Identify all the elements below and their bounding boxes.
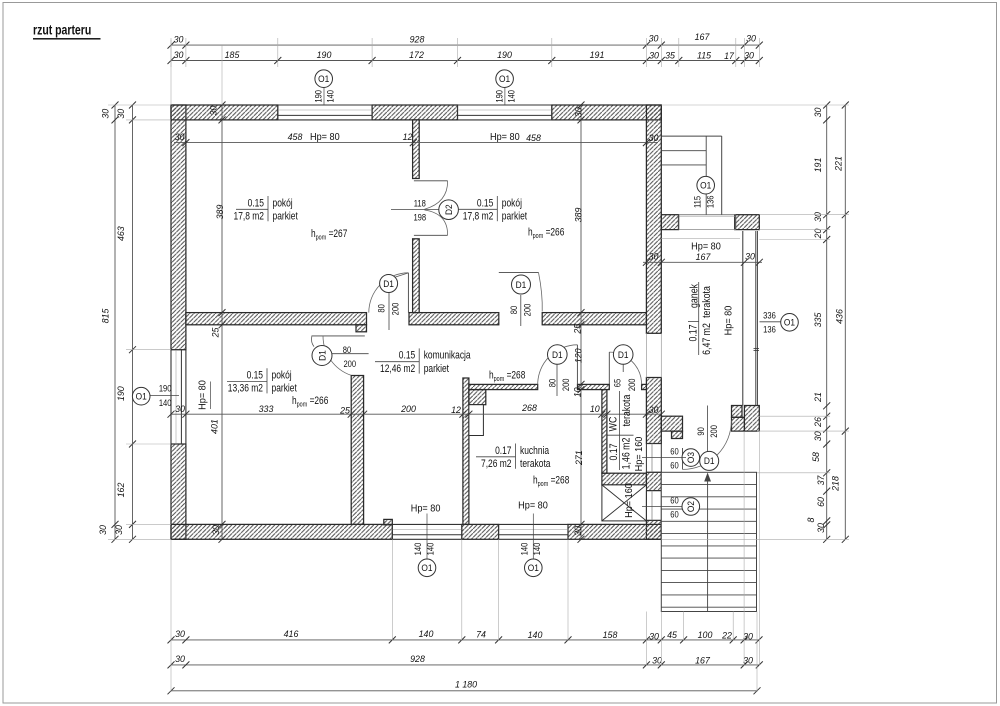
svg-text:terakota: terakota (520, 458, 551, 470)
svg-text:120: 120 (573, 348, 583, 364)
svg-text:7,26 m2: 7,26 m2 (481, 458, 511, 470)
svg-text:terakota: terakota (621, 394, 633, 426)
svg-text:271: 271 (574, 450, 584, 466)
svg-text:74: 74 (476, 629, 486, 639)
svg-text:928: 928 (410, 654, 426, 664)
svg-text:30: 30 (816, 522, 826, 533)
svg-text:30: 30 (813, 107, 823, 118)
svg-text:118: 118 (414, 198, 426, 209)
svg-text:12: 12 (451, 405, 461, 415)
svg-text:30: 30 (175, 404, 186, 414)
svg-text:336: 336 (763, 310, 776, 321)
svg-text:10: 10 (590, 404, 601, 414)
svg-text:140: 140 (425, 542, 436, 555)
svg-text:0.15: 0.15 (248, 197, 264, 209)
svg-text:komunikacja: komunikacja (424, 350, 471, 362)
svg-text:30: 30 (573, 107, 583, 118)
svg-text:Hp= 80: Hp= 80 (197, 380, 209, 410)
svg-text:333: 333 (259, 404, 275, 414)
svg-text:30: 30 (743, 655, 754, 665)
svg-text:Hp= 160: Hp= 160 (623, 483, 635, 518)
svg-text:90: 90 (695, 427, 706, 436)
svg-text:60: 60 (670, 495, 679, 506)
svg-text:O1: O1 (499, 74, 510, 85)
svg-text:30: 30 (573, 525, 583, 536)
svg-text:191: 191 (813, 158, 823, 173)
svg-text:Hp= 80: Hp= 80 (490, 131, 520, 143)
svg-text:25: 25 (210, 327, 220, 339)
svg-text:O1: O1 (421, 563, 432, 574)
svg-text:190: 190 (116, 385, 126, 401)
svg-text:pokój: pokój (272, 370, 292, 382)
svg-text:35: 35 (665, 50, 676, 60)
svg-text:80: 80 (547, 379, 558, 388)
svg-text:30: 30 (174, 50, 185, 60)
svg-text:200: 200 (389, 302, 400, 315)
svg-text:200: 200 (708, 425, 719, 438)
svg-text:Hp= 80: Hp= 80 (518, 500, 548, 512)
svg-text:30: 30 (116, 108, 126, 119)
svg-text:458: 458 (288, 132, 304, 142)
svg-text:268: 268 (521, 403, 538, 413)
svg-text:60: 60 (670, 445, 679, 456)
svg-text:167: 167 (695, 32, 711, 42)
svg-text:167: 167 (695, 655, 711, 665)
svg-text:389: 389 (215, 205, 225, 220)
svg-text:30: 30 (208, 105, 218, 116)
svg-text:60: 60 (816, 496, 826, 507)
svg-text:D1: D1 (317, 350, 328, 361)
svg-text:Hp= 160: Hp= 160 (633, 436, 645, 471)
svg-text:6,47 m2: 6,47 m2 (701, 323, 713, 355)
svg-text:O1: O1 (136, 391, 147, 402)
svg-text:30: 30 (175, 132, 186, 142)
svg-text:45: 45 (667, 630, 678, 640)
svg-text:190: 190 (159, 383, 172, 394)
svg-text:WC: WC (608, 417, 620, 432)
svg-text:30: 30 (98, 524, 108, 535)
svg-text:58: 58 (811, 451, 821, 462)
svg-text:60: 60 (670, 459, 679, 470)
svg-text:191: 191 (590, 50, 605, 60)
svg-text:30: 30 (649, 251, 660, 261)
svg-text:10: 10 (572, 387, 582, 398)
svg-text:80: 80 (343, 344, 352, 355)
svg-text:140: 140 (528, 630, 544, 640)
svg-text:O1: O1 (784, 317, 795, 328)
svg-text:0.15: 0.15 (477, 197, 493, 209)
svg-text:O1: O1 (528, 563, 539, 574)
svg-text:389: 389 (573, 208, 583, 223)
svg-text:D1: D1 (516, 279, 527, 290)
svg-text:200: 200 (522, 303, 533, 316)
svg-text:200: 200 (400, 404, 417, 414)
svg-text:Hp= 80: Hp= 80 (723, 305, 735, 335)
svg-text:parkiet: parkiet (502, 211, 528, 223)
svg-text:parkiet: parkiet (273, 211, 299, 223)
svg-text:185: 185 (225, 50, 241, 60)
svg-text:335: 335 (813, 312, 823, 328)
svg-text:30: 30 (649, 133, 660, 143)
svg-text:190: 190 (493, 90, 504, 103)
svg-text:1 180: 1 180 (455, 679, 478, 689)
svg-text:12,46 m2: 12,46 m2 (380, 363, 415, 375)
svg-text:Hp= 80: Hp= 80 (310, 131, 340, 143)
svg-text:140: 140 (518, 542, 529, 555)
svg-text:158: 158 (603, 630, 619, 640)
svg-text:100: 100 (698, 630, 714, 640)
svg-text:401: 401 (209, 419, 219, 434)
svg-text:80: 80 (376, 304, 387, 313)
svg-text:12: 12 (403, 132, 413, 142)
svg-text:115: 115 (697, 50, 712, 60)
svg-text:0.17: 0.17 (688, 324, 700, 342)
svg-text:0.15: 0.15 (247, 370, 263, 382)
svg-text:pokój: pokój (273, 197, 293, 209)
svg-text:30: 30 (649, 33, 660, 43)
svg-text:140: 140 (419, 629, 435, 639)
svg-text:1,46 m2: 1,46 m2 (621, 437, 633, 469)
svg-text:17,8 m2: 17,8 m2 (234, 211, 264, 223)
svg-text:30: 30 (745, 251, 756, 261)
svg-text:O1: O1 (700, 180, 711, 191)
svg-text:416: 416 (284, 629, 300, 639)
svg-text:D1: D1 (704, 456, 715, 467)
svg-text:30: 30 (813, 431, 823, 442)
svg-text:30: 30 (211, 524, 221, 535)
svg-text:200: 200 (343, 358, 356, 369)
svg-text:25: 25 (339, 405, 351, 415)
svg-text:17,8 m2: 17,8 m2 (463, 211, 493, 223)
svg-text:30: 30 (114, 524, 124, 535)
svg-text:37: 37 (816, 475, 826, 486)
svg-text:26: 26 (813, 416, 823, 428)
svg-text:928: 928 (410, 34, 426, 44)
svg-text:30: 30 (743, 631, 754, 641)
svg-text:O3: O3 (686, 452, 697, 463)
svg-text:115: 115 (692, 196, 703, 208)
svg-text:198: 198 (413, 212, 426, 223)
svg-text:0.15: 0.15 (399, 350, 415, 362)
svg-text:30: 30 (649, 631, 660, 641)
svg-text:Hp= 80: Hp= 80 (691, 241, 721, 253)
svg-text:30: 30 (174, 34, 185, 44)
svg-text:80: 80 (508, 306, 519, 315)
svg-text:kuchnia: kuchnia (520, 445, 550, 457)
svg-text:parkiet: parkiet (272, 383, 298, 395)
svg-text:815: 815 (100, 308, 110, 324)
svg-text:30: 30 (746, 33, 757, 43)
svg-text:65: 65 (612, 379, 623, 388)
svg-text:190: 190 (313, 90, 324, 103)
svg-text:30: 30 (100, 108, 110, 119)
svg-text:30: 30 (813, 211, 823, 222)
svg-text:O2: O2 (686, 501, 697, 512)
svg-text:140: 140 (412, 542, 423, 555)
svg-text:463: 463 (116, 225, 126, 241)
svg-text:30: 30 (175, 629, 186, 639)
svg-text:0.17: 0.17 (495, 445, 511, 457)
svg-text:D1: D1 (383, 278, 394, 289)
svg-text:140: 140 (159, 397, 172, 408)
svg-text:30: 30 (649, 50, 660, 60)
svg-text:140: 140 (531, 542, 542, 555)
svg-text:D1: D1 (552, 349, 563, 360)
svg-text:0.17: 0.17 (608, 443, 620, 461)
svg-text:13,36 m2: 13,36 m2 (228, 383, 263, 395)
svg-text:162: 162 (116, 483, 126, 498)
svg-text:218: 218 (830, 475, 840, 492)
svg-text:D1: D1 (618, 349, 629, 360)
svg-text:136: 136 (763, 324, 776, 335)
svg-text:30: 30 (744, 50, 755, 60)
svg-text:rzut parteru: rzut parteru (33, 22, 91, 38)
svg-text:200: 200 (560, 378, 571, 391)
svg-text:60: 60 (670, 509, 679, 520)
svg-text:21: 21 (813, 392, 823, 403)
svg-text:140: 140 (506, 90, 517, 103)
svg-text:190: 190 (317, 50, 333, 60)
svg-text:terakota: terakota (701, 286, 713, 318)
svg-text:parkiet: parkiet (424, 363, 450, 375)
svg-text:200: 200 (626, 378, 637, 391)
svg-text:D2: D2 (443, 204, 454, 215)
svg-text:140: 140 (325, 90, 336, 103)
svg-text:22: 22 (721, 630, 732, 640)
svg-text:190: 190 (497, 50, 513, 60)
svg-text:Hp= 80: Hp= 80 (411, 503, 441, 515)
svg-text:221: 221 (833, 156, 843, 172)
svg-text:17: 17 (724, 51, 735, 61)
svg-text:167: 167 (696, 252, 712, 262)
svg-text:136: 136 (705, 195, 716, 208)
svg-text:30: 30 (175, 654, 186, 664)
svg-text:pokój: pokój (502, 197, 522, 209)
svg-text:436: 436 (834, 308, 844, 324)
svg-text:30: 30 (649, 405, 660, 415)
svg-text:O1: O1 (318, 74, 329, 85)
svg-text:458: 458 (526, 133, 542, 143)
svg-text:172: 172 (409, 50, 424, 60)
svg-text:25: 25 (572, 323, 582, 335)
